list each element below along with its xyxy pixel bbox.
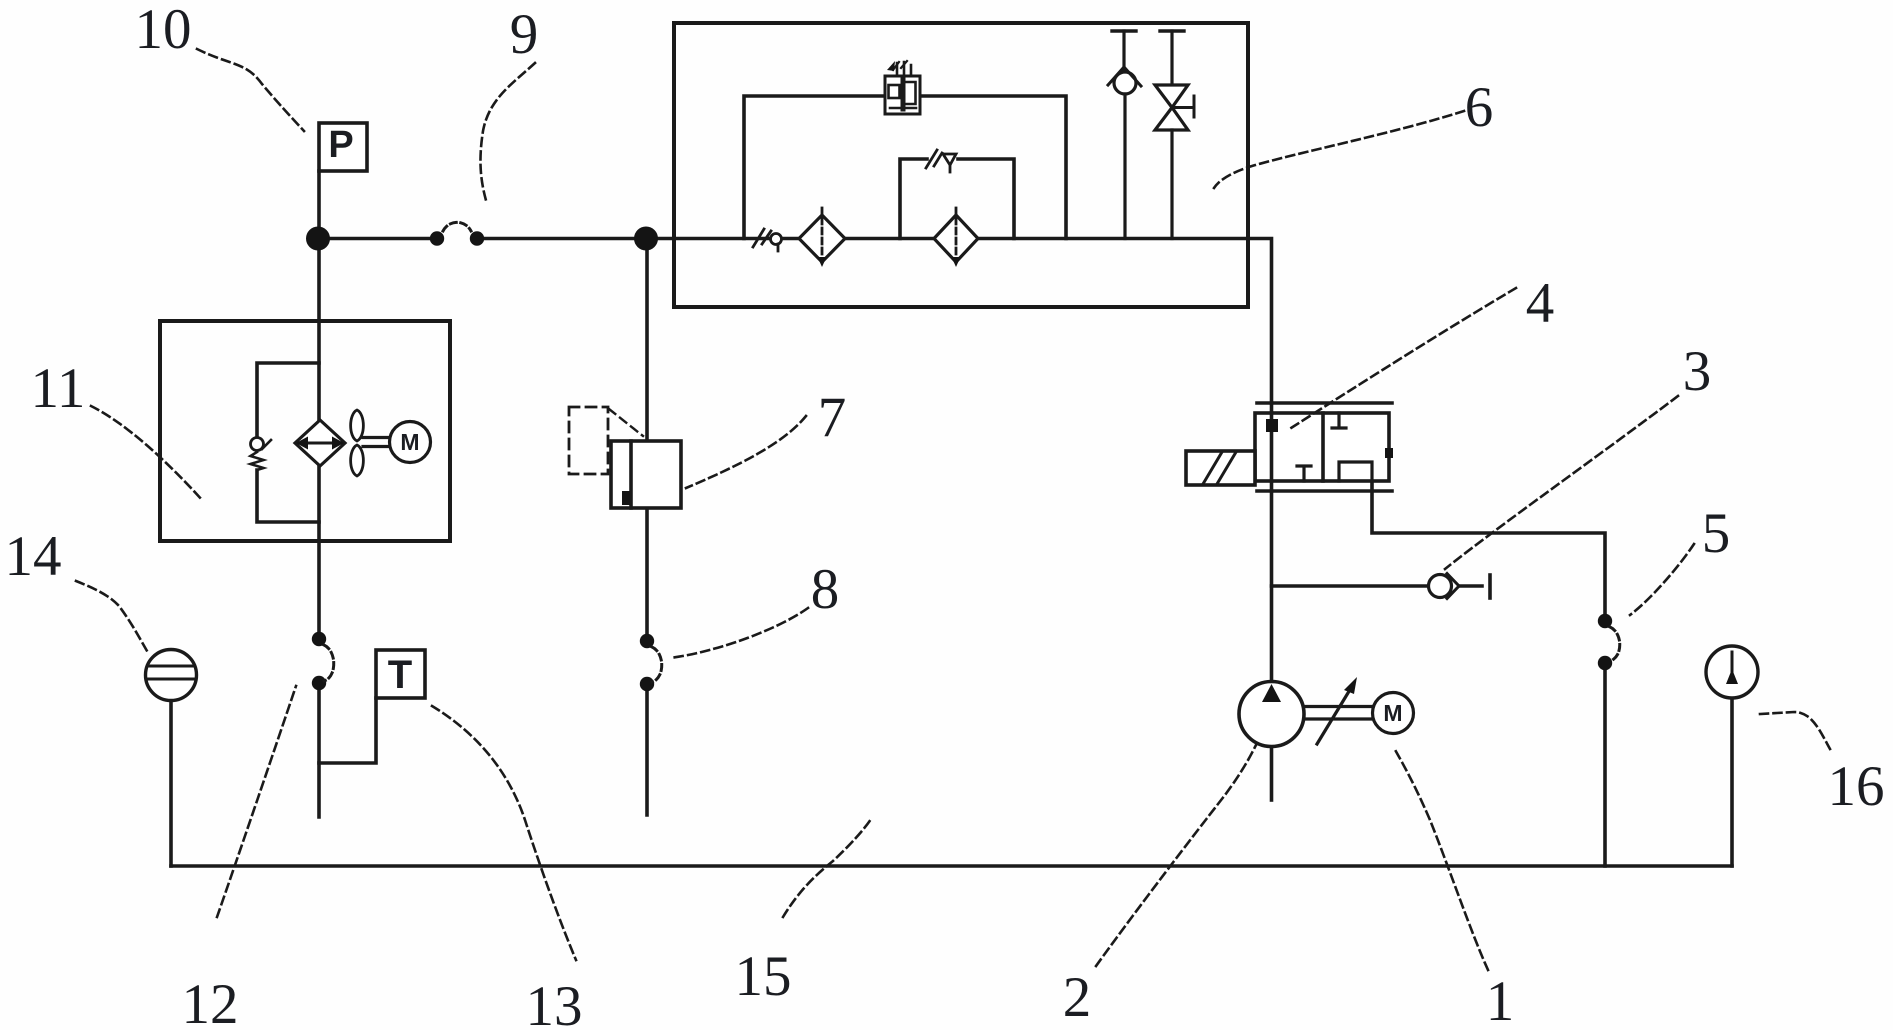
fan motor shaft in box 11 (363, 436, 390, 439)
quick coupling 5 arc (1610, 627, 1620, 661)
wire pump suction stub (1270, 746, 1274, 800)
svg-text:12: 12 (182, 973, 239, 1030)
wire through solenoid valve 4 (1270, 403, 1274, 491)
quick coupling 5 upper dot (1598, 614, 1612, 628)
check valve 3 (1429, 574, 1460, 599)
svg-text:2: 2 (1063, 966, 1092, 1029)
leader 13 (432, 706, 576, 960)
pump motor shaft (1304, 705, 1376, 708)
solenoid coil hatches (1203, 452, 1236, 484)
leader 12 (217, 686, 296, 917)
quick coupling 12 upper dot (312, 632, 326, 646)
quick coupling 8 upper dot (640, 634, 654, 648)
pump 2 outlet triangle (1262, 684, 1281, 702)
node B main junction middle (634, 227, 658, 251)
filter F1 in box 6 (799, 208, 845, 267)
wire breather 14 drop (169, 700, 173, 866)
svg-text:8: 8 (811, 558, 840, 621)
wire valve 4 side port down and across to coupling 5 (1372, 481, 1605, 618)
test point TP1 on main line (753, 229, 782, 251)
wire bypass loop in box 11 (257, 363, 319, 437)
pump 2 circle (1239, 682, 1304, 747)
wire main line right segment to corner (978, 239, 1272, 404)
quick coupling 9 arc (443, 222, 471, 231)
cooler unit box 11 (160, 321, 450, 541)
cooler diamond in box 11 (295, 420, 345, 466)
solenoid valve 4 center divider (1321, 413, 1325, 481)
svg-text:4: 4 (1526, 272, 1555, 335)
wire main pressure line left segment (318, 237, 430, 241)
wire branch to T box (319, 698, 376, 763)
solenoid valve 4 right cell passage (1339, 462, 1372, 481)
wire left vertical from P box to coupling 12 (317, 171, 321, 636)
leader 2 (1096, 745, 1256, 966)
leader 4 (1291, 288, 1516, 428)
wire middle vertical below valve 7 (645, 508, 649, 638)
quick coupling 8 arc (652, 647, 662, 682)
breather gauge 14 (146, 650, 197, 701)
leader 14 (76, 581, 147, 651)
solenoid valve 4 wire through left cell (1270, 413, 1274, 481)
solenoid coil of valve 4 (1186, 451, 1255, 485)
svg-text:1: 1 (1486, 970, 1515, 1030)
valve 7 body (611, 441, 681, 508)
wire middle vertical from node to valve 7 (645, 239, 649, 442)
wire middle vertical below coupling 8 (645, 688, 649, 815)
svg-text:6: 6 (1465, 76, 1494, 139)
svg-text:15: 15 (735, 945, 792, 1008)
wire main line between filters (845, 237, 934, 241)
valve 7 inner black element (622, 491, 630, 505)
leader 9 (480, 63, 535, 204)
wire branch to check valve 3 (1272, 584, 1429, 588)
leader 5 (1630, 544, 1694, 615)
leader 1 (1394, 748, 1488, 970)
wire thermometer 16 drop (1730, 698, 1734, 866)
wire below coupling 5 to tank bus (1603, 666, 1607, 866)
fan blades in box 11 (351, 410, 364, 476)
quick coupling 9 right dot (470, 231, 484, 245)
spring check valve in box 11 (251, 438, 272, 471)
wire valve 4 to pump 2 (1270, 491, 1274, 683)
svg-text:14: 14 (5, 525, 62, 588)
quick coupling 9 left dot (430, 231, 444, 245)
wire relief valve loop in box 6 (744, 96, 885, 239)
wire left vertical below coupling 12 (317, 686, 321, 817)
quick coupling 8 lower dot (640, 677, 654, 691)
wire check valve 3 end bar (1488, 575, 1492, 598)
enclosure box 6 (674, 23, 1248, 307)
air check valve in box 6 (1108, 31, 1141, 239)
svg-text:11: 11 (31, 357, 86, 420)
svg-text:3: 3 (1683, 340, 1712, 403)
svg-text:10: 10 (135, 0, 192, 61)
quick coupling 5 lower dot (1598, 656, 1612, 670)
relief valve V1 in box 6 (885, 61, 920, 114)
leader 8 (670, 608, 808, 658)
filter F2 in box 6 (934, 208, 978, 267)
test point TP2 on bypass (926, 150, 956, 172)
shutoff valve in box 6 (1155, 31, 1194, 239)
solenoid valve 4 body (1255, 413, 1389, 481)
svg-text:M: M (1383, 700, 1402, 726)
thermometer 16 (1706, 646, 1758, 698)
leader 11 (91, 406, 203, 501)
leader 10 (197, 49, 304, 131)
node A main junction left (306, 227, 330, 251)
solenoid valve 4 top rail (1257, 401, 1392, 405)
svg-text:16: 16 (1828, 755, 1885, 818)
svg-text:9: 9 (510, 3, 539, 66)
pressure gauge port box P (item 10) (319, 123, 367, 171)
solenoid valve 4 side port marker (1385, 448, 1393, 458)
wire bypass loop lower part (257, 470, 319, 522)
svg-text:13: 13 (526, 975, 583, 1030)
svg-text:T: T (388, 653, 412, 697)
svg-text:5: 5 (1702, 502, 1731, 565)
leader 7 (686, 416, 806, 488)
wire check valve 3 outlet (1459, 584, 1482, 588)
solenoid valve 4 left cell blocked port (1297, 466, 1311, 481)
quick coupling 12 lower dot (312, 676, 326, 690)
svg-text:P: P (328, 124, 353, 166)
solenoid valve 4 right cell blocked port (1332, 413, 1346, 428)
leader 15 (783, 819, 871, 917)
svg-text:M: M (400, 429, 419, 455)
wire bypass loop right part (958, 159, 1014, 239)
wire tank return bus line 15 (171, 864, 1732, 868)
wire relief valve loop right side (920, 96, 1066, 239)
wire main pressure line mid segment (482, 237, 799, 241)
valve 7 inner divider (629, 441, 633, 508)
temperature port box T (item 13) (376, 650, 425, 698)
solenoid valve 4 bottom rail (1257, 489, 1392, 493)
leader 6 (1214, 111, 1464, 188)
svg-text:7: 7 (818, 386, 847, 449)
quick coupling 12 arc (324, 645, 334, 681)
electric motor 1 circle (1373, 693, 1414, 734)
wire bypass loop around filter F2 (900, 159, 927, 239)
variable speed arrow on shaft (1317, 688, 1351, 744)
solenoid valve 4 plug marker (1266, 419, 1278, 432)
pilot dashed box of valve 7 (569, 407, 608, 474)
pilot dashed diagonal of valve 7 (609, 409, 643, 436)
leader 3 (1445, 396, 1678, 569)
fan motor M circle in box 11 (390, 422, 431, 463)
leader 16 (1760, 712, 1830, 749)
